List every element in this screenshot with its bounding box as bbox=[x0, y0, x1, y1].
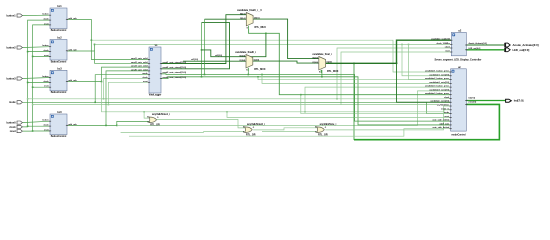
svg-text:bc2: bc2 bbox=[57, 37, 62, 40]
svg-text:candidate1_vote[2:0]: candidate1_vote[2:0] bbox=[429, 73, 449, 76]
svg-text:cand3_vote_stored[31:0]: cand3_vote_stored[31:0] bbox=[163, 71, 187, 74]
svg-text:RTL_MUX: RTL_MUX bbox=[327, 70, 339, 73]
svg-text:clock: clock bbox=[43, 125, 49, 127]
svg-text:anyValidVote1_i: anyValidVote1_i bbox=[152, 113, 170, 116]
svg-text:O[2:0]: O[2:0] bbox=[326, 62, 332, 64]
svg-text:vd1[2:0]: vd1[2:0] bbox=[191, 59, 198, 61]
svg-text:modeControl: modeControl bbox=[451, 134, 466, 137]
svg-text:RTL_OR: RTL_OR bbox=[246, 133, 256, 136]
svg-text:candidate_final0_i: candidate_final0_i bbox=[235, 51, 256, 54]
svg-text:button: button bbox=[42, 13, 49, 16]
svg-text:I1[2:0]: I1[2:0] bbox=[240, 60, 246, 62]
svg-text:clock_100Mhz: clock_100Mhz bbox=[436, 43, 449, 45]
svg-text:vote_side_settled: vote_side_settled bbox=[432, 119, 450, 122]
svg-text:anyValidVote: anyValidVote bbox=[437, 104, 450, 107]
svg-text:ButtonControl: ButtonControl bbox=[51, 135, 67, 138]
svg-text:add_role: add_role bbox=[68, 18, 77, 20]
svg-text:add_role: add_role bbox=[68, 124, 77, 126]
svg-text:reset: reset bbox=[143, 80, 148, 83]
svg-text:I0: I0 bbox=[147, 117, 149, 119]
svg-text:LED_out[6:0]: LED_out[6:0] bbox=[513, 48, 530, 52]
svg-text:reset: reset bbox=[44, 85, 49, 88]
svg-text:led[7:0]: led[7:0] bbox=[468, 98, 475, 100]
svg-text:button2: button2 bbox=[7, 46, 17, 49]
svg-text:RTL_MUX: RTL_MUX bbox=[254, 68, 266, 71]
svg-text:reset: reset bbox=[444, 115, 449, 118]
svg-text:clock: clock bbox=[43, 81, 49, 83]
svg-text:cand1_vote_stored[31:0]: cand1_vote_stored[31:0] bbox=[163, 61, 187, 64]
svg-text:candidate2_button_press: candidate2_button_press bbox=[425, 77, 450, 80]
svg-text:mode: mode bbox=[142, 73, 148, 75]
svg-text:cand0_vote_stored[31:0]: cand0_vote_stored[31:0] bbox=[163, 76, 187, 79]
svg-text:cand2_vote_stored[31:0]: cand2_vote_stored[31:0] bbox=[163, 66, 187, 69]
svg-text:vd0[2:0]: vd0[2:0] bbox=[215, 55, 222, 57]
svg-text:mode: mode bbox=[444, 112, 450, 114]
svg-text:bc0: bc0 bbox=[57, 111, 62, 114]
svg-text:RTL_MUX: RTL_MUX bbox=[255, 26, 267, 29]
svg-text:candidate1_button_press: candidate1_button_press bbox=[425, 70, 450, 73]
svg-text:button1: button1 bbox=[7, 14, 17, 17]
svg-text:candidate_final0_i__0: candidate_final0_i__0 bbox=[237, 9, 262, 12]
svg-text:candidate_final_i: candidate_final_i bbox=[312, 53, 332, 56]
svg-text:candidate3_button_press: candidate3_button_press bbox=[425, 85, 450, 88]
svg-text:add_role: add_role bbox=[68, 49, 77, 51]
svg-text:cand2_vote_valid: cand2_vote_valid bbox=[131, 61, 148, 64]
svg-text:reset: reset bbox=[44, 128, 49, 131]
svg-text:add_role: add_role bbox=[68, 80, 77, 82]
svg-text:Seven_segment_LED_Display_Cont: Seven_segment_LED_Display_Controller bbox=[435, 59, 482, 62]
svg-text:I1: I1 bbox=[147, 121, 149, 123]
svg-text:I0[2:0]: I0[2:0] bbox=[312, 57, 318, 59]
svg-text:I1[2:0]: I1[2:0] bbox=[240, 18, 246, 20]
svg-text:reset: reset bbox=[445, 50, 450, 53]
svg-text:vote_side_locked: vote_side_locked bbox=[433, 126, 450, 129]
svg-text:I1[2:0]: I1[2:0] bbox=[312, 62, 318, 64]
svg-text:I1: I1 bbox=[315, 131, 317, 133]
svg-text:cand0_vote_valid: cand0_vote_valid bbox=[131, 68, 148, 71]
svg-text:clock: clock bbox=[43, 50, 49, 52]
svg-text:bc1: bc1 bbox=[57, 5, 62, 8]
svg-text:I0[2:0]: I0[2:0] bbox=[240, 13, 246, 15]
svg-text:button0: button0 bbox=[7, 122, 17, 125]
svg-text:candidate2_vote[2:0]: candidate2_vote[2:0] bbox=[429, 81, 449, 84]
svg-text:candidate_vote[2:0]: candidate_vote[2:0] bbox=[431, 38, 450, 41]
svg-text:candidate3_vote[2:0]: candidate3_vote[2:0] bbox=[429, 88, 449, 91]
svg-text:reset: reset bbox=[44, 22, 49, 25]
svg-text:clock: clock bbox=[445, 47, 451, 49]
svg-text:ButtonControl: ButtonControl bbox=[51, 91, 67, 94]
svg-text:cand1_vote_valid: cand1_vote_valid bbox=[131, 57, 148, 60]
svg-text:mode: mode bbox=[9, 101, 16, 104]
svg-text:ButtonControl: ButtonControl bbox=[51, 60, 67, 63]
svg-text:ButtonControl: ButtonControl bbox=[51, 29, 67, 32]
svg-text:clock: clock bbox=[444, 97, 450, 99]
svg-text:clock: clock bbox=[9, 126, 16, 129]
svg-text:cand3_vote_valid: cand3_vote_valid bbox=[131, 65, 148, 68]
svg-text:clock: clock bbox=[43, 19, 49, 21]
svg-text:mode_in: mode_in bbox=[441, 108, 450, 110]
svg-text:button: button bbox=[42, 75, 49, 78]
svg-text:O[2:0]: O[2:0] bbox=[254, 18, 260, 20]
svg-text:vote[2:0]: vote[2:0] bbox=[468, 101, 476, 104]
svg-text:anyValidVote0_i: anyValidVote0_i bbox=[247, 123, 265, 126]
svg-text:button3: button3 bbox=[7, 77, 17, 80]
svg-text:Anode_Activate[3:0]: Anode_Activate[3:0] bbox=[513, 43, 539, 47]
svg-text:I0[2:0]: I0[2:0] bbox=[240, 55, 246, 57]
svg-text:led[7:0]: led[7:0] bbox=[514, 99, 524, 103]
svg-text:VoteLogger: VoteLogger bbox=[149, 93, 162, 96]
svg-text:clock: clock bbox=[142, 77, 148, 79]
svg-text:button: button bbox=[42, 44, 49, 47]
svg-text:candidate_vote[2:0]: candidate_vote[2:0] bbox=[430, 100, 449, 103]
svg-text:bc3: bc3 bbox=[57, 67, 62, 70]
svg-text:valid_vote: valid_vote bbox=[439, 122, 450, 125]
svg-text:RTL_OR: RTL_OR bbox=[318, 133, 328, 136]
svg-text:reset: reset bbox=[10, 130, 16, 133]
svg-text:LED_out[6:0]: LED_out[6:0] bbox=[469, 47, 481, 50]
svg-text:button: button bbox=[42, 119, 49, 122]
svg-text:anyValidVote_i: anyValidVote_i bbox=[320, 123, 337, 126]
svg-text:O[2:0]: O[2:0] bbox=[254, 60, 260, 62]
svg-text:I1: I1 bbox=[243, 131, 245, 133]
svg-text:Anode_Activate[3:0]: Anode_Activate[3:0] bbox=[469, 42, 488, 45]
svg-text:reset: reset bbox=[44, 54, 49, 57]
svg-text:candidate0_button_press: candidate0_button_press bbox=[425, 92, 450, 95]
svg-text:I0: I0 bbox=[315, 127, 317, 129]
svg-text:I0: I0 bbox=[243, 127, 245, 129]
svg-text:RTL_OR: RTL_OR bbox=[150, 123, 160, 126]
